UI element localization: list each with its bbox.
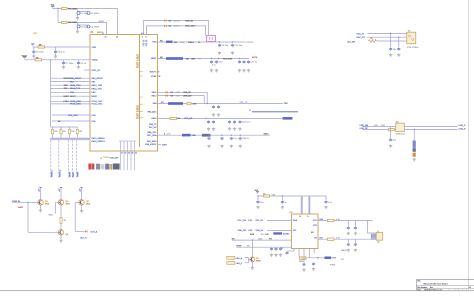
- ground Q4: [60, 235, 62, 239]
- wire reset row: [158, 58, 250, 60]
- net label TXD box: [168, 102, 183, 105]
- ferrite block FB3: [413, 153, 416, 157]
- ground Q1: [40, 205, 42, 209]
- svg-text:NRST: NRST: [70, 171, 72, 177]
- svg-text:PORT B BUS: PORT B BUS: [137, 105, 139, 119]
- junction rx: [205, 118, 206, 119]
- wire u3 left row5: [236, 246, 291, 248]
- svg-text:VIN: VIN: [272, 194, 276, 196]
- U1 pin stub OSC: [84, 69, 90, 71]
- net label SCL box: [182, 134, 191, 137]
- U1 internal port bus line: [138, 35, 140, 148]
- svg-text:5: 5: [142, 37, 143, 39]
- svg-text:VO2: VO2: [313, 225, 317, 227]
- crystal Y2: [407, 32, 416, 44]
- U1 pin stub swo: [158, 144, 162, 146]
- svg-text:BAT54: BAT54: [174, 19, 181, 22]
- transistor Q4: [58, 230, 64, 236]
- svg-text:22R: 22R: [381, 125, 385, 127]
- svg-text:NRST: NRST: [64, 96, 70, 98]
- junction rail1: [57, 8, 58, 9]
- capacitor C18: [218, 105, 220, 106]
- U1 bottom pin wire 2: [123, 141, 125, 151]
- resistor R9 zigzag: [368, 40, 376, 43]
- svg-text:R17: R17: [320, 238, 323, 240]
- svg-text:SDA_5V: SDA_5V: [256, 229, 264, 232]
- junction v1: [257, 195, 258, 196]
- power stub Q3: [81, 188, 83, 200]
- svg-text:C6 4.7u: C6 4.7u: [58, 51, 66, 53]
- svg-text:3904: 3904: [45, 203, 49, 205]
- component block gray-blue: [96, 164, 100, 170]
- ground usb chain: [413, 158, 415, 159]
- ground for C3 C4: [77, 28, 79, 30]
- svg-text:OUT_B: OUT_B: [80, 238, 87, 240]
- capacitor C42: [221, 137, 223, 138]
- resistor R8: [170, 117, 177, 119]
- svg-text:PB0_ADC: PB0_ADC: [147, 110, 157, 113]
- wire crystal row: [158, 41, 246, 43]
- component block darkslate: [113, 164, 120, 170]
- svg-text:BOOT1: BOOT1: [150, 71, 158, 73]
- junction i2c2: [221, 135, 222, 136]
- resistor R13: [60, 217, 62, 223]
- wire xtal line2: [367, 36, 406, 38]
- svg-text:PA11: PA11: [152, 91, 158, 94]
- title block outline: [417, 279, 474, 290]
- svg-text:4.7K: 4.7K: [167, 134, 172, 136]
- ground c13 c14 c15: [239, 69, 241, 70]
- svg-text:VCP_TX: VCP_TX: [240, 102, 248, 104]
- ground for C1 C2: [77, 15, 79, 17]
- svg-text:OSC_XO: OSC_XO: [356, 37, 365, 39]
- svg-text:100K: 100K: [258, 238, 263, 240]
- wire rail2: [58, 21, 107, 23]
- svg-text:OSC: OSC: [180, 42, 185, 44]
- ground Q3: [81, 205, 83, 209]
- power flag VDDA: [23, 56, 26, 58]
- svg-text:NRST: NRST: [92, 96, 98, 98]
- svg-text:0: 0: [318, 258, 319, 260]
- svg-text:Microcontroller Core Board: Microcontroller Core Board: [424, 283, 448, 286]
- svg-text:25: 25: [135, 153, 137, 155]
- junction x1: [390, 33, 391, 34]
- svg-text:VCP_RX: VCP_RX: [184, 118, 193, 120]
- wire gpio row 4: [51, 88, 90, 90]
- capacitor C4: [87, 25, 90, 28]
- junction uart: [207, 103, 208, 104]
- capacitor C13: [239, 60, 241, 61]
- capacitor C35: [354, 221, 356, 227]
- svg-text:22: 22: [124, 153, 126, 155]
- junction i2c3: [231, 135, 232, 136]
- svg-text:21: 21: [121, 153, 123, 155]
- svg-text:24: 24: [131, 153, 133, 155]
- svg-text:PA12: PA12: [152, 94, 158, 97]
- svg-text:FB2 600R: FB2 600R: [68, 22, 78, 24]
- svg-text:5 6: 5 6: [141, 33, 144, 35]
- diode D3: [164, 25, 166, 27]
- wire q5 collector: [252, 240, 254, 257]
- junction en: [252, 239, 253, 240]
- svg-text:SDA: SDA: [293, 219, 298, 222]
- wire u3 left row1: [267, 220, 291, 222]
- capacitor C11: [211, 60, 213, 61]
- wire usb c drop: [390, 127, 392, 138]
- svg-text:VO1: VO1: [313, 220, 317, 222]
- wire q3 base link: [75, 201, 79, 203]
- svg-text:2024-06-01 Sheet 1 of 1: 2024-06-01 Sheet 1 of 1: [424, 288, 442, 291]
- resistor R4: [35, 59, 42, 61]
- svg-text:VREF: VREF: [236, 245, 242, 247]
- capacitor C32: [275, 247, 277, 248]
- ESD array D1 red block b: [92, 164, 95, 170]
- ground c21 c22 c23: [229, 127, 231, 128]
- svg-text:SCL_3V3: SCL_3V3: [238, 220, 247, 222]
- svg-text:PB6_TX: PB6_TX: [149, 124, 157, 126]
- wire net SWO drop: [71, 140, 73, 178]
- diode D2: [164, 20, 166, 22]
- net label XIN: [166, 41, 173, 43]
- wire q net down: [27, 202, 29, 232]
- svg-text:VREF: VREF: [77, 171, 79, 177]
- junction c10: [232, 41, 233, 42]
- resistor RN1: [52, 127, 54, 129]
- svg-text:22R: 22R: [193, 103, 197, 105]
- capacitor C38: [287, 250, 294, 252]
- usb filter U2: [396, 123, 405, 132]
- U1 bottom pin wire 3: [127, 141, 129, 151]
- svg-text:600R: 600R: [299, 261, 304, 263]
- resistor R11: [389, 128, 395, 130]
- wire row PH1 to U1: [70, 120, 90, 122]
- transistor Q1: [38, 200, 44, 206]
- crystal Y1: [207, 36, 216, 42]
- wire gpio row 3: [51, 84, 90, 86]
- svg-text:1.0: 1.0: [469, 287, 471, 289]
- opto U4 input b: [227, 262, 235, 265]
- capacitor C23: [239, 120, 241, 121]
- svg-text:MCU: MCU: [97, 32, 102, 34]
- capacitor C37: [354, 239, 356, 242]
- opto U4 input a: [227, 256, 235, 259]
- wire vdd row: [33, 46, 90, 48]
- wire rail1: [53, 8, 118, 10]
- ground c19 c20: [208, 127, 210, 128]
- svg-text:USB_P: USB_P: [459, 125, 466, 127]
- wire r13 to q4: [60, 223, 62, 229]
- U3 bottom pin 3: [303, 249, 305, 263]
- svg-text:SCL_5V: SCL_5V: [256, 220, 264, 222]
- title block row line 2: [417, 288, 474, 290]
- junction r1: [211, 58, 212, 59]
- wire uart row: [158, 103, 284, 105]
- capacitor C33: [280, 247, 282, 248]
- power flag VIN: [256, 191, 259, 193]
- component block slate: [105, 164, 109, 170]
- svg-text:C2 100nF: C2 100nF: [91, 13, 101, 15]
- net label RESET: [166, 57, 183, 60]
- resistor RN4: [76, 127, 78, 129]
- net label out box: [325, 257, 332, 260]
- component block tan: [110, 164, 112, 170]
- U1 bus tap rows 71-76: [139, 71, 142, 79]
- svg-text:15: 15: [307, 216, 309, 218]
- title block row line 1: [417, 284, 474, 286]
- resistor R3: [38, 46, 45, 48]
- svg-text:PA13_SWDIO: PA13_SWDIO: [92, 137, 106, 140]
- capacitor C40: [313, 262, 315, 263]
- component F1: [187, 102, 191, 105]
- svg-text:7: 7: [103, 33, 104, 35]
- svg-text:VDD: VDD: [33, 33, 38, 35]
- capacitor C12: [216, 60, 218, 61]
- capacitor C25: [398, 47, 400, 48]
- capacitor C9: [219, 44, 221, 45]
- svg-text:PB7_SDA: PB7_SDA: [147, 134, 157, 137]
- junction usb: [414, 129, 415, 130]
- svg-text:PH0_OSC: PH0_OSC: [68, 115, 78, 117]
- capacitor C1: [77, 9, 79, 12]
- svg-text:USB_DM: USB_DM: [183, 95, 192, 97]
- svg-text:PC15_OSC: PC15_OSC: [92, 104, 103, 106]
- svg-text:OSC32: OSC32: [247, 42, 255, 44]
- svg-text:VDD: VDD: [92, 47, 97, 49]
- capacitor C31: [271, 247, 273, 248]
- svg-text:PA13_TMS: PA13_TMS: [92, 84, 103, 87]
- wire xtal line3: [377, 40, 407, 42]
- svg-text:VDD: VDD: [332, 258, 337, 260]
- component block light: [101, 164, 105, 169]
- U1 top pin ticks: [143, 40, 148, 46]
- resistor R1: [62, 8, 68, 10]
- svg-text:LED_A: LED_A: [236, 257, 243, 260]
- svg-text:3904: 3904: [66, 203, 70, 205]
- svg-text:PA14_TCK: PA14_TCK: [70, 87, 81, 90]
- wire row PH1: [52, 120, 70, 122]
- U1 bus taps port B: [139, 97, 142, 119]
- wire gpio row 6: [51, 95, 90, 97]
- svg-text:XTAL_IN: XTAL_IN: [185, 19, 194, 22]
- U3 bottom pin 5: [313, 249, 315, 254]
- capacitor C2: [87, 12, 90, 15]
- capacitor C17: [213, 105, 215, 106]
- net label int box: [273, 232, 282, 234]
- wire net SWDIO drop: [50, 140, 52, 178]
- wire vdda row: [25, 59, 91, 61]
- wire xtal line1: [367, 33, 406, 35]
- wire u3 pwr bus 2: [308, 196, 310, 214]
- svg-text:SWDIO: SWDIO: [52, 170, 54, 177]
- capacitor C7: [63, 60, 65, 62]
- capacitor C14: [243, 60, 245, 61]
- capacitor C6: [55, 47, 57, 50]
- wire osc loop 2: [147, 26, 206, 36]
- wire u3 left row4: [232, 239, 291, 241]
- connector J1 pins: [371, 234, 376, 239]
- feed line down: [50, 60, 52, 127]
- wire opto to q5: [245, 258, 250, 260]
- wire u3 right row1: [318, 220, 373, 222]
- capacitor C26: [390, 138, 392, 139]
- transistor Q3: [79, 200, 85, 206]
- svg-text:FB1 600R: FB1 600R: [68, 8, 78, 10]
- svg-text:PB7_RX: PB7_RX: [149, 127, 157, 129]
- capacitor C5: [33, 47, 35, 50]
- capacitor C21: [229, 120, 231, 121]
- svg-text:PA0_WKUP: PA0_WKUP: [92, 77, 104, 80]
- junction v2: [282, 195, 283, 196]
- svg-text:C8 1u: C8 1u: [81, 63, 87, 65]
- wire u3 left row2: [267, 229, 291, 231]
- svg-text:C44 1u: C44 1u: [242, 138, 250, 140]
- svg-text:13: 13: [116, 37, 118, 39]
- wire u3 right row2: [318, 238, 371, 240]
- svg-text:23: 23: [128, 153, 130, 155]
- svg-text:SWO: SWO: [162, 144, 167, 146]
- capacitor C27 block: [413, 141, 416, 148]
- wire gpio row 5: [51, 91, 90, 93]
- capacitor C22: [234, 120, 236, 121]
- resistor R2: [62, 21, 68, 23]
- svg-text:PA13_TMS: PA13_TMS: [70, 84, 81, 87]
- wire net VREF drop: [75, 140, 77, 178]
- capacitor C28: [257, 196, 259, 200]
- connector J1 body: [376, 233, 383, 241]
- capacitor C29: [281, 196, 283, 200]
- wire net NRST drop: [68, 140, 70, 178]
- svg-text:C10 20p: C10 20p: [235, 45, 244, 47]
- power flag VCC3V3 top: [51, 5, 54, 7]
- svg-text:VCAP: VCAP: [151, 75, 157, 78]
- junction q net: [27, 202, 28, 203]
- title block cell dividers: [440, 289, 442, 291]
- capacitor C10: [232, 44, 234, 45]
- svg-text:6: 6: [146, 37, 147, 39]
- svg-text:PA0_WKUP: PA0_WKUP: [70, 77, 82, 80]
- svg-text:Title: Title: [417, 280, 420, 283]
- svg-text:SDA_3V3: SDA_3V3: [238, 229, 248, 232]
- junction i2c1: [208, 135, 209, 136]
- svg-text:10: 10: [158, 76, 160, 78]
- U1 bottom notch: [119, 140, 136, 142]
- svg-text:SOD: SOD: [176, 92, 181, 94]
- svg-text:SOD: SOD: [176, 95, 181, 97]
- svg-text:PC15_OSC: PC15_OSC: [70, 104, 81, 106]
- wire q2 base stub: [56, 201, 59, 203]
- wire gpio row 8: [51, 103, 90, 105]
- capacitor C15: [248, 60, 250, 61]
- svg-text:5V0: 5V0: [255, 190, 258, 192]
- transistor Q2: [58, 200, 64, 206]
- svg-text:PORT A BUS: PORT A BUS: [136, 54, 139, 68]
- svg-text:PC14: PC14: [64, 101, 70, 103]
- svg-text:U1: U1: [90, 30, 94, 34]
- ferrite FB4: [300, 257, 307, 260]
- diode D5: [166, 91, 168, 93]
- junction feed: [50, 59, 51, 60]
- capacitor C30: [325, 196, 327, 200]
- svg-text:GATE: GATE: [18, 206, 24, 209]
- capacitor C19: [208, 120, 210, 121]
- svg-text:C7 100n: C7 100n: [66, 63, 75, 65]
- ground c17 c18: [213, 113, 215, 114]
- wire i2c row: [158, 134, 270, 136]
- wire osc loop 1: [144, 21, 209, 36]
- svg-text:9: 9: [158, 71, 159, 73]
- junction i2c4: [240, 135, 241, 136]
- svg-text:AVDD: AVDD: [99, 20, 105, 23]
- svg-text:0: 0: [164, 134, 165, 136]
- svg-text:PB6_SCL: PB6_SCL: [147, 132, 157, 134]
- ground c11 c12: [211, 69, 213, 70]
- wire usb line1: [362, 126, 457, 128]
- wire vin rail: [258, 195, 327, 197]
- wire q4 base feed: [28, 231, 58, 233]
- wire row PH0: [52, 114, 90, 116]
- svg-text:TXD: TXD: [284, 103, 289, 105]
- svg-text:OSC_IN: OSC_IN: [92, 70, 101, 72]
- svg-text:C38: C38: [280, 248, 283, 250]
- resistor RN2: [60, 127, 62, 129]
- wire rail2 drop to U1: [106, 22, 108, 34]
- svg-text:16: 16: [299, 216, 301, 218]
- resistor RN3: [69, 127, 71, 129]
- svg-text:VDDA: VDDA: [22, 54, 28, 57]
- svg-text:C9 20p: C9 20p: [222, 45, 230, 47]
- resistor R16: [328, 219, 335, 221]
- svg-text:SWCLK: SWCLK: [60, 169, 62, 177]
- MCU U1 outline: [90, 35, 158, 152]
- svg-text:MMBT: MMBT: [256, 261, 262, 263]
- wire diode row 2: [158, 96, 205, 104]
- svg-text:BAT54: BAT54: [174, 25, 181, 28]
- page right border: [468, 0, 470, 291]
- capacitor C43: [230, 137, 232, 138]
- U3 bottom pin 2: [298, 249, 300, 257]
- wire gpio row 1: [51, 77, 90, 79]
- wire resistor array top rail: [51, 126, 78, 128]
- svg-text:1M: 1M: [174, 42, 177, 44]
- U1 bottom pin wire 4: [130, 141, 132, 151]
- U1 bottom pin wire 1: [120, 141, 122, 151]
- wire net SWCLK drop: [58, 140, 60, 178]
- wire gpio row 2: [51, 81, 90, 83]
- wire rail1-rail2 link: [57, 9, 59, 23]
- wire q2 emitter: [60, 205, 62, 217]
- wire xtal c drop 1: [390, 34, 392, 48]
- svg-text:RST#: RST#: [252, 57, 258, 59]
- svg-text:BIAS: BIAS: [49, 214, 54, 217]
- svg-text:USB_DM: USB_DM: [110, 157, 119, 159]
- capacitor C3: [77, 22, 79, 25]
- svg-text:XTAL1: XTAL1: [188, 41, 195, 44]
- wire gpio row 7: [51, 100, 90, 102]
- svg-text:C15 1u: C15 1u: [251, 62, 259, 64]
- svg-text:LED_K: LED_K: [236, 263, 243, 265]
- svg-text:PA14_SWCLK: PA14_SWCLK: [92, 140, 106, 143]
- resistor block R12: [413, 148, 416, 152]
- net label RXD end box: [283, 117, 293, 120]
- svg-text:SWO: SWO: [73, 172, 75, 177]
- capacitor C20: [213, 120, 215, 121]
- svg-text:PA14_TCK: PA14_TCK: [92, 87, 103, 90]
- U3 bottom pin 1: [293, 249, 295, 252]
- resistor R17: [328, 238, 335, 240]
- svg-text:OUT_A: OUT_A: [91, 230, 98, 233]
- svg-text:RST_BTN: RST_BTN: [223, 58, 233, 60]
- svg-text:R16: R16: [320, 219, 323, 221]
